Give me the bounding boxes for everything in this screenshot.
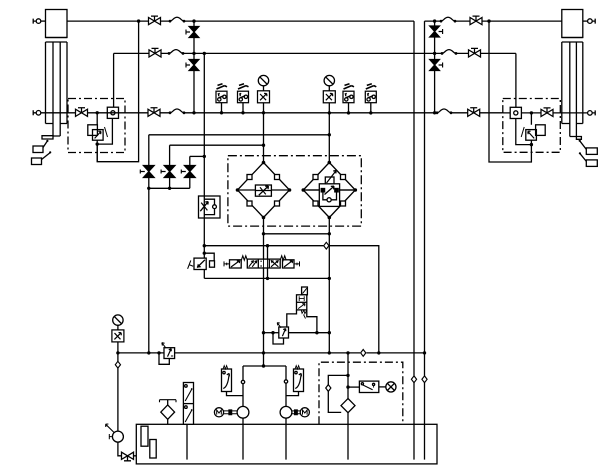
ball valve V8 in right box: [541, 108, 553, 117]
wire right box relief connections: [530, 113, 532, 145]
tank internal pipe x187: [186, 424, 188, 459]
port circle right cylinder top: [583, 19, 595, 24]
coupling M1-P1: [224, 410, 238, 415]
wire pump suctions into tank: [243, 418, 286, 459]
wire PRV1 right to drain junction: [289, 332, 330, 334]
gauge isolator GI3: [112, 330, 124, 342]
wire row1 left (rod side line y=21): [67, 20, 414, 22]
relief valve RV3 (system relief): [188, 258, 215, 269]
hose break row3 left: [169, 109, 186, 114]
node relief2 out: [530, 143, 533, 146]
indicator lamp LP1: [379, 382, 396, 392]
wire PRV2 pilot loop: [159, 353, 169, 364]
ball valve V2 row1 right: [470, 16, 482, 25]
leg PS1: [221, 103, 223, 113]
leg PS2: [242, 103, 244, 113]
wire RV4 drain to riser: [227, 392, 244, 396]
wire gauge3 stem: [117, 325, 119, 353]
node row1-x194: [192, 19, 195, 22]
line marker on x424.5: [422, 376, 427, 383]
node y332.7 x329.3: [328, 331, 331, 334]
shutoff valve NV1: [140, 166, 154, 178]
wire return line into filter: [347, 353, 349, 399]
level gauge LG1 with float switches: [183, 383, 193, 425]
node relief out: [96, 142, 99, 145]
relief valve RV3 pilot line: [204, 253, 214, 261]
node PRV1 pilot tap: [271, 331, 274, 334]
node filter bypass top: [346, 374, 349, 377]
filter bypass branch with marker: [328, 375, 348, 412]
node filter switch tap: [346, 385, 349, 388]
node PS4: [369, 111, 372, 114]
wire vertical x489 right row1 drop to relief: [489, 21, 531, 162]
node main x117.9: [116, 351, 119, 354]
line marker on x414: [411, 376, 416, 383]
ball valve V3 row2 left: [149, 48, 161, 57]
hose break row2 left: [168, 50, 185, 55]
shutoff valve NV3: [181, 166, 195, 178]
wire pump riser left: [242, 366, 244, 407]
hand pump HP1: [106, 424, 124, 442]
node main x263.5: [262, 351, 265, 354]
wire NV2 stems: [169, 145, 171, 188]
enclosure right counterbalance box (dash-dot): [503, 99, 561, 153]
wire RV3 to T line: [203, 269, 205, 278]
node y245.7 x204.3: [203, 244, 206, 247]
tank baffle plates: [141, 426, 156, 458]
wire NV1 stems: [148, 135, 150, 189]
orifice O1 square with circle left: [107, 107, 118, 118]
wire y245.7 pilot line across: [204, 246, 378, 354]
check coupling CK4: [430, 60, 443, 71]
node PS1: [220, 111, 223, 114]
node main x378.8: [377, 351, 380, 354]
pump P1: [237, 406, 249, 418]
node T x267.5: [266, 277, 269, 280]
bridge B1 arm check squares: [247, 175, 280, 207]
node main x148.8: [147, 351, 150, 354]
valve DV1 4/3 proportional directional valve: [224, 256, 300, 268]
reducing valve PRV1 (pilot operated): [277, 323, 288, 338]
check coupling CK3: [430, 26, 443, 37]
reducing valve PRV2 on main line: [162, 343, 175, 359]
shutoff valve NV2: [161, 166, 175, 178]
wire vertical x267.5 valve P: [267, 246, 269, 279]
cylinder CR (right lifting cylinder): [562, 10, 583, 140]
hose break row1 left: [169, 17, 186, 22]
gauge isolator GI1: [258, 91, 270, 103]
node main x159: [157, 351, 160, 354]
drain ball valve V9: [122, 452, 134, 461]
limit lever L2: [32, 151, 52, 164]
wire y134.8 feed to right bridge: [149, 134, 329, 136]
enclosure central flow-control box (dash-dot): [228, 156, 361, 226]
enclosure left counterbalance box (dash-dot): [68, 99, 125, 153]
hose break row1 right: [440, 17, 457, 22]
wire vertical x434.6 (check manifold right): [434, 21, 436, 113]
wire manifold bottom y188.3: [149, 187, 190, 189]
wire PRV1 pilot loop: [273, 333, 284, 344]
relief valve RV5 (right pump): [294, 366, 304, 392]
line marker hand pump line: [115, 361, 120, 368]
gauge isolator GI2: [323, 91, 335, 103]
node row3-x194: [192, 111, 195, 114]
pressure gauge PG3 (pump line): [113, 315, 123, 325]
bridge B1 diamond left: [236, 161, 292, 220]
node main x329.3: [328, 351, 331, 354]
wire row1 right: [425, 20, 562, 22]
ball valve V1 row1 left: [149, 16, 161, 25]
junction circle riser left: [241, 380, 244, 383]
wire relief out to orifice bottom: [97, 118, 112, 144]
wire hand pump to drain valve: [118, 442, 136, 456]
ball valve V7 in left box: [76, 108, 88, 117]
pressure switch PS4: [365, 84, 376, 103]
pump P2: [280, 406, 292, 418]
pressure gauge PG1: [258, 75, 268, 85]
relief valve RV4 (left pump): [222, 366, 232, 392]
coupling P2-M2: [292, 410, 300, 415]
throttle valve FT1 in bridge B1: [255, 185, 271, 196]
wire row2 (middle long line y=53.4): [114, 52, 516, 54]
wire RV5 drain to riser: [286, 392, 299, 396]
wire gauge1 stem: [263, 86, 265, 163]
wire relief out down around to x138.6: [96, 144, 98, 162]
wire pump manifold U y366: [243, 365, 286, 367]
node bridge bottom right: [328, 232, 331, 235]
ball valve V4 row2 right: [469, 48, 481, 57]
solenoid cartridge valve SV1: [297, 287, 308, 319]
node y156.4 x204.3: [203, 155, 206, 158]
node row1-x489: [487, 19, 490, 22]
wire vertical x204.3 (row2 down to relief): [203, 53, 205, 258]
filter F1: [341, 399, 355, 460]
hose break row3 right: [436, 109, 453, 114]
node PS2: [241, 111, 244, 114]
node main x348: [346, 351, 349, 354]
node bridge bottom left: [262, 232, 265, 235]
wire row2 drop right into box (to orifice): [515, 53, 517, 107]
bridge B2 arm check squares: [313, 175, 346, 207]
line marker on main x363: [361, 350, 366, 357]
node left box junction: [96, 111, 99, 114]
motor M2: [300, 408, 309, 417]
ball valve V6 row3 right: [468, 108, 480, 117]
node gauge2 row3: [328, 111, 331, 114]
node row3-x434.6: [433, 111, 436, 114]
wire gauge2 stem: [328, 86, 330, 163]
wire row3 inside right box: [503, 112, 541, 114]
wire relief2 out to orifice2 bottom: [516, 119, 532, 145]
pressure switch PS3: [343, 84, 354, 103]
node manifold x169.6: [168, 187, 171, 190]
wire main pressure line y352.9: [118, 352, 425, 354]
port circle left cylinder bottom: [33, 110, 75, 115]
wire y156.4 from valve3 to x204.3: [190, 155, 205, 157]
node row1-x138.6: [137, 19, 140, 22]
node T x329.3: [328, 277, 331, 280]
node PS3: [347, 111, 350, 114]
node row2-x433.3: [433, 52, 436, 55]
wire vertical x414 row1 corner down to tank: [413, 21, 415, 460]
node RV3 pilot: [203, 252, 206, 255]
check coupling CK2: [186, 60, 199, 71]
cylinder CL (left lifting cylinder): [42, 10, 67, 140]
node y245.7 x267.5: [266, 244, 269, 247]
wire row3 (lower long line y=112.8): [88, 112, 503, 114]
wire left box relief connections: [96, 113, 98, 144]
check coupling CK1: [186, 27, 199, 38]
wire bridge bottoms y233.8: [264, 218, 330, 354]
node manifold tee: [262, 364, 265, 367]
node y145.2 x263.5: [262, 144, 265, 147]
node main x424.5: [423, 351, 426, 354]
wire vertical x424.5 row1 right corner down to tank: [424, 21, 426, 460]
wire pump riser right: [285, 366, 287, 407]
pressure switch PS2: [238, 84, 249, 103]
node manifold x148.8: [147, 187, 150, 190]
hose break row2 right: [441, 50, 458, 55]
wire vertical x138.6 row1 to y161.7: [97, 21, 138, 162]
wire x263.5 tee down to pump manifold: [263, 353, 265, 366]
ball valve V5 row3 left: [148, 108, 160, 117]
node gauge1 row3: [262, 111, 265, 114]
wire linking bridge bottoms: [264, 233, 330, 235]
wire SV1 right drain: [307, 310, 317, 333]
node right box junction: [530, 111, 533, 114]
flow control FC1 in bridge B2 (pressure compensated): [303, 171, 355, 207]
line marker on y245.7: [324, 242, 329, 249]
pressure gauge PG2: [324, 75, 334, 85]
wire PRV1 left: [264, 332, 279, 334]
throttle check valve FV1 on pilot line: [199, 196, 221, 218]
line marker bypass: [326, 385, 331, 392]
enclosure return filter box (dash-dot): [319, 362, 403, 424]
node row1-x434.6: [433, 19, 436, 22]
wire row2 drop left into box (to orifice): [113, 53, 115, 107]
motor M1: [214, 408, 223, 417]
relief valve RV1 (left box counterbalance): [88, 125, 108, 140]
wire y145.2 feed to left bridge: [170, 144, 264, 146]
wire vertical x148.8 manifold to main line: [148, 188, 150, 353]
leg PS4: [370, 103, 372, 113]
bridge B2 diamond right: [302, 161, 358, 220]
pressure switch PS1: [216, 84, 227, 103]
wire T line y278.4: [204, 277, 329, 279]
relief valve RV2 (right box counterbalance): [521, 125, 545, 140]
limit lever L1: [33, 140, 49, 153]
tank T1: [136, 424, 437, 464]
node PRV1 left main: [262, 331, 265, 334]
node row2-x204.3: [203, 52, 206, 55]
node y134.8 x329.3: [328, 133, 331, 136]
node row2-x194: [192, 52, 195, 55]
wire vertical x194 (check manifold left): [193, 21, 195, 113]
pressure switch PS5 (clogging indicator): [348, 381, 379, 392]
wire SV1 left to reducing valve: [287, 310, 297, 327]
wire NV3 stems: [189, 156, 191, 188]
port circle left cylinder top: [33, 19, 45, 24]
port circle right cylinder bottom: [553, 110, 595, 115]
limit lever R2: [579, 152, 597, 166]
wire hand pump drop: [117, 353, 119, 431]
junction circle riser right: [284, 380, 287, 383]
limit lever R1: [579, 140, 598, 155]
orifice O2 square with circle right: [510, 107, 521, 118]
leg PS3: [348, 103, 350, 113]
air breather AB1: [160, 400, 177, 425]
node SV1 drain: [315, 331, 318, 334]
